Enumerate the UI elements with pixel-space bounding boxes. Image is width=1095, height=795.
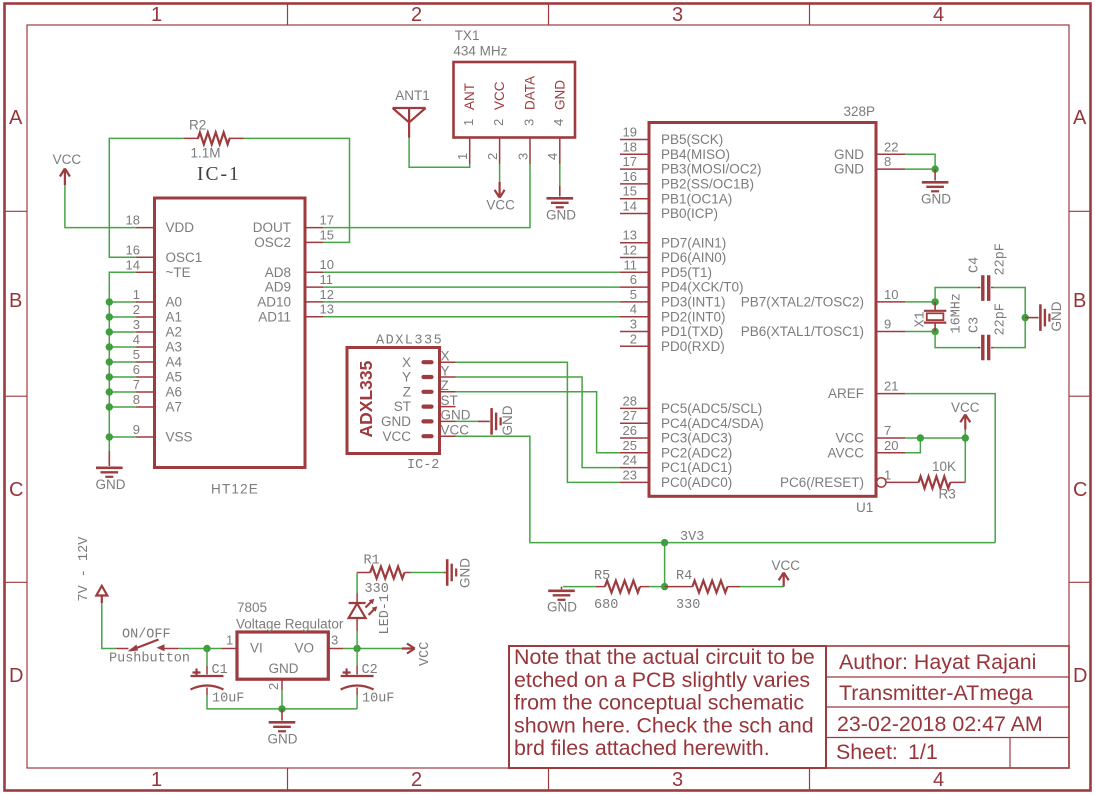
- svg-text:Y: Y: [441, 363, 450, 378]
- svg-text:3: 3: [515, 153, 530, 160]
- svg-text:4: 4: [933, 769, 944, 791]
- svg-text:18: 18: [126, 213, 140, 228]
- svg-text:6: 6: [630, 272, 637, 287]
- svg-text:GND: GND: [269, 661, 299, 676]
- svg-text:12: 12: [320, 287, 334, 302]
- wire OSC1 net left vertical: [109, 138, 183, 257]
- svg-text:GND: GND: [268, 732, 298, 747]
- svg-text:2: 2: [485, 153, 500, 160]
- svg-text:22: 22: [884, 139, 898, 154]
- wire R5 to ground: [563, 586, 596, 588]
- svg-text:ADXL335: ADXL335: [376, 334, 443, 349]
- IC-2 pin pads: [424, 362, 432, 436]
- svg-text:VI: VI: [250, 641, 263, 656]
- svg-text:GND: GND: [834, 147, 864, 162]
- svg-text:VCC: VCC: [441, 423, 470, 438]
- svg-text:A: A: [9, 107, 23, 129]
- svg-text:ON/OFF: ON/OFF: [122, 628, 171, 643]
- IC-2 pin names: [381, 355, 411, 444]
- svg-text:AD8: AD8: [265, 265, 291, 280]
- svg-text:PC4(ADC4/SDA): PC4(ADC4/SDA): [661, 416, 764, 431]
- frame row ticks left: [5, 211, 28, 582]
- svg-text:ST: ST: [441, 393, 458, 408]
- svg-text:PD7(AIN1): PD7(AIN1): [661, 235, 726, 250]
- wire TX1 pin2 to VCC: [499, 164, 501, 182]
- wire pushbutton to regulator input: [179, 648, 222, 650]
- IC-1 right pin names: [253, 220, 291, 324]
- svg-text:DOUT: DOUT: [253, 220, 291, 235]
- svg-text:Y: Y: [402, 370, 411, 385]
- svg-text:AD9: AD9: [265, 280, 291, 295]
- svg-text:VCC: VCC: [835, 431, 864, 446]
- svg-text:R3: R3: [939, 487, 956, 502]
- svg-text:B: B: [9, 290, 22, 312]
- svg-text:A1: A1: [166, 310, 183, 325]
- svg-text:1: 1: [461, 119, 476, 126]
- svg-text:15: 15: [623, 184, 637, 199]
- wire 7805 pin2 to ground rail: [281, 690, 283, 709]
- svg-text:A6: A6: [166, 385, 183, 400]
- supply VCC arrow down under TX1: [495, 182, 505, 198]
- svg-text:26: 26: [623, 423, 637, 438]
- wire C4 to ground corner: [994, 288, 1026, 318]
- svg-text:brd files attached herewith.: brd files attached herewith.: [514, 736, 770, 760]
- supply VCC top-left arrow: [60, 169, 70, 186]
- svg-text:22pF: 22pF: [994, 243, 1009, 275]
- svg-text:6: 6: [133, 362, 140, 377]
- svg-text:VCC: VCC: [951, 400, 980, 415]
- svg-text:A2: A2: [166, 325, 183, 340]
- svg-text:GND: GND: [381, 414, 411, 429]
- svg-text:1.1M: 1.1M: [191, 146, 221, 161]
- U1 left pin numbers: [623, 125, 637, 483]
- svg-text:1: 1: [151, 4, 162, 26]
- wire TX1 pin4 to ground: [559, 164, 561, 186]
- resistor R1: [357, 572, 410, 574]
- svg-text:3: 3: [133, 317, 140, 332]
- svg-text:Transmitter-ATmega: Transmitter-ATmega: [839, 681, 1033, 705]
- svg-text:20: 20: [884, 438, 898, 453]
- 7805 pin stubs: [222, 649, 344, 691]
- frame column ticks top: [288, 4, 810, 26]
- junction C1 node: [203, 645, 210, 652]
- capacitor C4: [978, 287, 994, 289]
- svg-text:17: 17: [623, 154, 637, 169]
- U1 reset pin inverting bubble: [877, 478, 886, 487]
- svg-text:VCC: VCC: [486, 198, 515, 213]
- IC-1 right pin numbers: [320, 213, 334, 317]
- svg-text:8: 8: [884, 154, 891, 169]
- svg-text:GND: GND: [547, 600, 577, 615]
- svg-text:DATA: DATA: [523, 76, 538, 110]
- TX1 pin stubs below box: [470, 138, 560, 165]
- svg-text:21: 21: [884, 379, 898, 394]
- junction ground rail: [278, 705, 285, 712]
- svg-text:OSC1: OSC1: [166, 250, 203, 265]
- svg-text:4: 4: [630, 302, 637, 317]
- svg-text:PC6(/RESET): PC6(/RESET): [780, 475, 864, 490]
- svg-text:1/1: 1/1: [908, 740, 938, 764]
- junction dots on A-pin net: [106, 298, 113, 440]
- svg-text:D: D: [9, 665, 23, 687]
- svg-text:434 MHz: 434 MHz: [453, 44, 507, 59]
- svg-text:Note that the actual circuit t: Note that the actual circuit to be: [514, 645, 815, 669]
- svg-text:2: 2: [266, 683, 281, 690]
- svg-text:B: B: [1073, 290, 1086, 312]
- svg-text:PB0(ICP): PB0(ICP): [661, 206, 718, 221]
- wire TX1 pin1 to antenna: [409, 138, 470, 168]
- ground symbol left of R5: [548, 587, 575, 600]
- svg-text:A5: A5: [166, 370, 183, 385]
- svg-text:16MHz: 16MHz: [950, 293, 965, 334]
- svg-text:3: 3: [521, 119, 536, 126]
- resistor R3: [886, 481, 965, 483]
- svg-text:X: X: [402, 355, 411, 370]
- junction crystal top: [931, 298, 938, 305]
- svg-text:15: 15: [320, 227, 334, 242]
- svg-text:2: 2: [133, 302, 140, 317]
- svg-text:GND: GND: [546, 208, 576, 223]
- module TX1 body: [454, 62, 576, 138]
- svg-text:X: X: [441, 349, 450, 364]
- svg-text:A4: A4: [166, 355, 183, 370]
- svg-text:1: 1: [151, 769, 162, 791]
- svg-text:PC5(ADC5/SCL): PC5(ADC5/SCL): [661, 401, 762, 416]
- svg-text:GND: GND: [500, 405, 515, 435]
- svg-text:GND: GND: [552, 80, 567, 110]
- svg-text:PB7(XTAL2/TOSC2): PB7(XTAL2/TOSC2): [741, 295, 864, 310]
- U1 right pin stubs: [876, 154, 905, 453]
- IC-2 pin stubs: [440, 362, 456, 436]
- svg-text:Voltage Regulator: Voltage Regulator: [236, 617, 344, 632]
- IC U1 ATmega328P body: [649, 123, 876, 497]
- svg-text:10K: 10K: [932, 459, 956, 474]
- svg-text:1: 1: [133, 287, 140, 302]
- svg-text:1: 1: [226, 633, 233, 648]
- svg-text:TX1: TX1: [455, 28, 480, 43]
- svg-text:5: 5: [630, 287, 637, 302]
- IC IC-1 HT12E body: [155, 198, 306, 468]
- wire VDD to VCC: [65, 185, 136, 228]
- svg-text:10: 10: [320, 257, 334, 272]
- svg-text:18: 18: [623, 139, 637, 154]
- svg-text:VCC: VCC: [772, 558, 801, 573]
- svg-text:7: 7: [133, 377, 140, 392]
- svg-text:Pushbutton: Pushbutton: [109, 652, 190, 667]
- svg-text:3: 3: [331, 633, 338, 648]
- svg-text:330: 330: [365, 582, 389, 597]
- resistor R5: [596, 586, 649, 588]
- LED LED-1: [349, 573, 378, 649]
- crystal X1 16MHz: [924, 302, 946, 332]
- ground symbol under IC-1: [96, 451, 123, 477]
- ground symbol right of U1: [922, 169, 949, 191]
- ground symbol under 7805: [269, 709, 296, 731]
- svg-text:5: 5: [133, 347, 140, 362]
- svg-text:VCC: VCC: [53, 152, 82, 167]
- svg-text:ST: ST: [394, 399, 411, 414]
- svg-text:GND: GND: [441, 408, 471, 423]
- svg-text:VSS: VSS: [166, 430, 193, 445]
- svg-text:PC0(ADC0): PC0(ADC0): [661, 475, 732, 490]
- wire PB6 to crystal: [905, 331, 935, 333]
- svg-text:10uF: 10uF: [212, 692, 244, 707]
- junction divider node: [661, 583, 668, 590]
- svg-text:IC-2: IC-2: [407, 458, 439, 473]
- svg-text:3V3: 3V3: [680, 530, 704, 545]
- wire TE/A0-A7/VSS ground net: [109, 272, 136, 451]
- wire C3 to ground corner: [994, 318, 1026, 348]
- svg-text:Z: Z: [441, 378, 449, 393]
- wire AREF to 3V3 rail: [905, 394, 995, 543]
- svg-text:C1: C1: [212, 663, 228, 678]
- svg-text:3: 3: [630, 317, 637, 332]
- svg-text:C4: C4: [968, 257, 983, 273]
- wire crystal bottom to C3: [935, 332, 978, 348]
- svg-text:PD6(AIN0): PD6(AIN0): [661, 250, 726, 265]
- svg-text:HT12E: HT12E: [211, 482, 259, 497]
- svg-text:shown here. Check the sch and: shown here. Check the sch and: [514, 713, 814, 737]
- svg-text:~TE: ~TE: [166, 265, 191, 280]
- svg-text:PB6(XTAL1/TOSC1): PB6(XTAL1/TOSC1): [741, 324, 864, 339]
- svg-text:PB5(SCK): PB5(SCK): [661, 132, 723, 147]
- svg-text:PC1(ADC1): PC1(ADC1): [661, 460, 732, 475]
- supply VCC arrow right of U1: [960, 415, 970, 430]
- U1 right pin numbers: [884, 139, 898, 482]
- svg-text:2: 2: [411, 4, 422, 26]
- svg-text:VCC: VCC: [418, 642, 433, 666]
- supply VCC arrow divider: [779, 573, 789, 587]
- svg-text:11: 11: [624, 257, 638, 272]
- svg-text:IC-1: IC-1: [197, 164, 241, 185]
- pushbutton S1: [116, 640, 178, 652]
- svg-text:2: 2: [630, 331, 637, 346]
- svg-text:330: 330: [676, 598, 700, 613]
- wire AD9 to PD4: [323, 286, 620, 288]
- svg-text:GND: GND: [1049, 301, 1064, 331]
- svg-text:10: 10: [884, 287, 898, 302]
- svg-text:C3: C3: [968, 317, 983, 333]
- svg-text:11: 11: [320, 272, 334, 287]
- svg-text:PD2(INT0): PD2(INT0): [661, 309, 726, 324]
- svg-text:ANT1: ANT1: [395, 88, 430, 103]
- wire PB7 to crystal: [905, 301, 935, 303]
- svg-text:3: 3: [672, 769, 683, 791]
- svg-text:14: 14: [623, 199, 637, 214]
- svg-text:VDD: VDD: [166, 220, 195, 235]
- frame row ticks right: [1069, 211, 1091, 582]
- svg-text:PC3(ADC3): PC3(ADC3): [661, 431, 732, 446]
- svg-text:from the conceptual schematic: from the conceptual schematic: [514, 691, 804, 715]
- svg-text:A3: A3: [166, 340, 183, 355]
- wire 3V3 to divider node: [664, 543, 666, 587]
- svg-text:C: C: [1073, 479, 1087, 501]
- svg-text:VCC: VCC: [492, 81, 507, 110]
- wire DOUT to TX1 DATA: [323, 164, 530, 228]
- svg-text:VO: VO: [295, 641, 315, 656]
- svg-text:AVCC: AVCC: [827, 445, 864, 460]
- svg-text:PD4(XCK/T0): PD4(XCK/T0): [661, 280, 744, 295]
- svg-text:D: D: [1073, 665, 1087, 687]
- IC-1 left pin stubs: [136, 228, 155, 437]
- svg-text:23: 23: [623, 467, 637, 482]
- svg-text:328P: 328P: [844, 104, 876, 119]
- svg-text:C: C: [9, 479, 23, 501]
- ground symbol rotated right of IC-2: [478, 408, 501, 435]
- junction VCC pin7: [917, 434, 924, 441]
- IC-1 right pin stubs: [305, 228, 323, 317]
- svg-text:GND: GND: [96, 477, 126, 492]
- svg-text:24: 24: [623, 453, 637, 468]
- svg-text:U1: U1: [856, 500, 873, 515]
- junction GND net: [931, 165, 938, 172]
- svg-text:4: 4: [933, 4, 944, 26]
- svg-text:Z: Z: [403, 384, 411, 399]
- svg-text:13: 13: [320, 302, 334, 317]
- wire AD10 to PD3: [323, 301, 620, 303]
- svg-text:PD0(RXD): PD0(RXD): [661, 339, 725, 354]
- junction 3V3 node: [661, 539, 668, 546]
- IC-1 left pin names: [166, 220, 203, 444]
- svg-text:R1: R1: [364, 554, 380, 569]
- IC 7805 voltage regulator body: [237, 632, 328, 679]
- svg-text:VCC: VCC: [382, 429, 411, 444]
- svg-text:AREF: AREF: [828, 386, 864, 401]
- antenna ANT1 symbol: [393, 108, 426, 138]
- IC-2 net labels: [441, 349, 471, 438]
- svg-text:AD10: AD10: [257, 295, 291, 310]
- supply VCC arrow right of 7805: [402, 644, 415, 654]
- title block: [826, 646, 1069, 768]
- svg-text:X1: X1: [914, 311, 929, 327]
- wire GND pins 22 and 8: [905, 154, 935, 169]
- wire C2 to ground rail: [356, 695, 358, 709]
- svg-text:A7: A7: [166, 400, 183, 415]
- svg-text:17: 17: [320, 213, 334, 228]
- resistor R4: [665, 586, 740, 588]
- svg-text:PB2(SS/OC1B): PB2(SS/OC1B): [661, 177, 754, 192]
- svg-text:A: A: [1073, 107, 1087, 129]
- svg-text:4: 4: [133, 332, 140, 347]
- svg-text:3: 3: [672, 4, 683, 26]
- svg-text:PD1(TXD): PD1(TXD): [661, 324, 723, 339]
- svg-text:PD3(INT1): PD3(INT1): [661, 295, 726, 310]
- svg-text:PB4(MISO): PB4(MISO): [661, 147, 730, 162]
- svg-text:2: 2: [411, 769, 422, 791]
- wire Z to PC2: [456, 392, 621, 453]
- svg-text:4: 4: [551, 119, 566, 126]
- junction crystal ground: [1021, 314, 1028, 321]
- svg-text:GND: GND: [458, 558, 473, 588]
- wire R1 to ground: [411, 572, 445, 574]
- U1 left pin stubs: [620, 140, 649, 483]
- svg-text:1: 1: [455, 153, 470, 160]
- svg-text:10uF: 10uF: [362, 692, 394, 707]
- ground symbol under TX1: [547, 186, 574, 207]
- svg-text:8: 8: [133, 392, 140, 407]
- capacitor C3: [978, 347, 994, 349]
- svg-text:28: 28: [623, 393, 637, 408]
- wire R2 to OSC2: [244, 138, 350, 242]
- svg-text:PC2(ADC2): PC2(ADC2): [661, 445, 732, 460]
- svg-text:7: 7: [884, 423, 891, 438]
- wire 3V3 rail: [456, 436, 996, 542]
- wire R4 to VCC: [740, 586, 784, 588]
- U1 left pin names: [661, 132, 764, 490]
- supply 7V-12V symbol: [96, 586, 107, 603]
- svg-text:GND: GND: [921, 192, 951, 207]
- wire C1 to ground rail: [207, 695, 357, 709]
- svg-text:etched on a PCB slightly varie: etched on a PCB slightly varies: [514, 668, 810, 692]
- svg-text:R2: R2: [189, 117, 206, 132]
- svg-text:25: 25: [623, 438, 637, 453]
- svg-text:9: 9: [133, 422, 140, 437]
- ground symbol rotated right of R1: [444, 559, 456, 586]
- IC-1 left pin numbers: [126, 213, 140, 437]
- svg-text:PD5(T1): PD5(T1): [661, 265, 712, 280]
- U1 right pin names: [741, 147, 865, 490]
- svg-text:16: 16: [623, 169, 637, 184]
- junction VCC arrow node: [962, 434, 969, 441]
- svg-text:PB3(MOSI/OC2): PB3(MOSI/OC2): [661, 162, 762, 177]
- junction regulator output node: [353, 645, 360, 652]
- svg-text:19: 19: [623, 125, 637, 140]
- svg-text:Author: Hayat Rajani: Author: Hayat Rajani: [839, 650, 1036, 674]
- svg-text:ADXL335: ADXL335: [356, 360, 376, 437]
- svg-text:680: 680: [594, 598, 618, 613]
- svg-text:4: 4: [545, 153, 560, 160]
- svg-text:AD11: AD11: [258, 309, 291, 324]
- ground symbol rotated right of crystal: [1025, 304, 1049, 331]
- svg-text:14: 14: [126, 257, 140, 272]
- svg-text:GND: GND: [834, 162, 864, 177]
- IC IC-2 ADXL335 body: [347, 348, 440, 454]
- note box: [509, 646, 826, 768]
- frame column ticks bottom: [288, 768, 810, 791]
- svg-text:9: 9: [884, 317, 891, 332]
- svg-text:R4: R4: [676, 569, 692, 584]
- wire AD11 to PD2: [323, 316, 620, 318]
- svg-text:R5: R5: [594, 569, 610, 584]
- wire VCC pin 7 net: [905, 430, 965, 483]
- svg-text:13: 13: [623, 228, 637, 243]
- wire divider to R5: [649, 586, 665, 588]
- wire Y to PC1: [456, 377, 621, 468]
- resistor R2: [184, 137, 244, 139]
- svg-text:23-02-2018 02:47 AM: 23-02-2018 02:47 AM: [837, 712, 1043, 736]
- svg-text:7V - 12V: 7V - 12V: [77, 536, 92, 602]
- wire IC-2 GND to ground: [456, 420, 478, 422]
- svg-text:LED-1: LED-1: [378, 594, 393, 635]
- svg-text:ANT: ANT: [462, 83, 477, 110]
- svg-text:A0: A0: [166, 295, 183, 310]
- svg-text:C2: C2: [362, 663, 378, 678]
- capacitor C2: [341, 649, 374, 696]
- svg-text:22pF: 22pF: [994, 303, 1009, 335]
- wire 7805 output to VCC node: [343, 648, 402, 650]
- svg-text:27: 27: [623, 408, 637, 423]
- svg-text:16: 16: [126, 242, 140, 257]
- capacitor C1: [191, 649, 224, 696]
- junction crystal bottom: [931, 328, 938, 335]
- wire X to PC0: [456, 362, 621, 482]
- svg-text:7805: 7805: [237, 600, 267, 615]
- svg-text:12: 12: [623, 243, 637, 258]
- svg-text:2: 2: [491, 119, 506, 126]
- wire crystal top to C4: [935, 288, 978, 302]
- wire AD8 to PD5: [323, 271, 620, 273]
- wire supply to pushbutton: [102, 603, 117, 649]
